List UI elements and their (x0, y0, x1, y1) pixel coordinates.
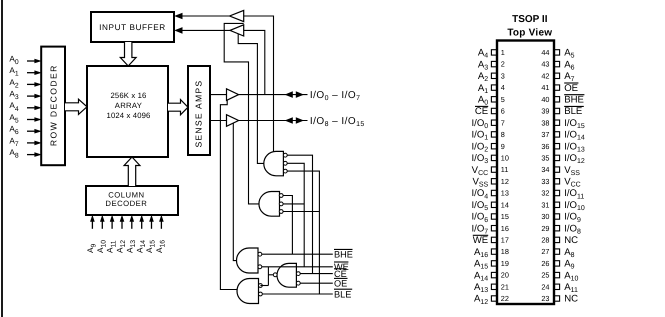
svg-text:20: 20 (501, 271, 509, 280)
svg-text:1: 1 (501, 48, 505, 57)
pin 6 CE lead, number and label (475, 106, 505, 117)
svg-text:8: 8 (501, 130, 505, 139)
pin 5 A,0 lead, number and label (478, 95, 505, 107)
svg-text:4: 4 (501, 83, 505, 92)
pin 26 A,9 lead, number and label (541, 259, 574, 271)
pin 20 A,14 lead, number and label (474, 270, 509, 282)
pin 29 IO:8 lead, number and label (541, 223, 581, 235)
svg-text:1024 x 4096: 1024 x 4096 (107, 111, 151, 120)
wire SENSE AMPS to buffer T4 (210, 120, 227, 122)
wire SENSE AMPS to buffer T3 (210, 94, 227, 96)
open arrow ARRAY to SENSE AMPS (168, 100, 188, 115)
svg-text:DECODER: DECODER (105, 199, 147, 208)
TSOP II package body (497, 41, 554, 305)
svg-text:44: 44 (541, 48, 549, 57)
svg-text:32: 32 (541, 189, 549, 198)
svg-text:27: 27 (541, 247, 549, 256)
svg-text:21: 21 (501, 282, 509, 291)
svg-text:43: 43 (541, 60, 549, 69)
pin 28 NC lead, number and label (541, 235, 578, 246)
svg-text:OE: OE (334, 279, 347, 289)
address input A0 wire and label (9, 54, 41, 66)
pin 33 V,CC lead, number and label (541, 177, 580, 189)
svg-text:19: 19 (501, 259, 509, 268)
pin 43 A,6 lead, number and label (541, 59, 574, 71)
buffer T1 (data in, upper) (230, 10, 244, 21)
wire T2 output to INPUT BUFFER with arrowhead (174, 27, 230, 34)
address input A15 wire and label (145, 215, 157, 253)
pin 3 A,2 lead, number and label (478, 71, 505, 83)
svg-text:36: 36 (541, 142, 549, 151)
buffer T2 (data in, lower) (230, 25, 244, 36)
control signal WE line and label (262, 262, 349, 272)
buffer T3 (data out, upper) (227, 89, 239, 101)
svg-text:12: 12 (501, 177, 509, 186)
svg-text:23: 23 (541, 294, 549, 303)
address input A1 wire and label (9, 66, 41, 78)
wire T3 enable from gate G5 output (220, 100, 237, 289)
pin 14 IO:5 lead, number and label (471, 200, 508, 212)
svg-text:34: 34 (541, 165, 549, 174)
svg-text:41: 41 (541, 83, 549, 92)
svg-text:NC: NC (564, 294, 578, 305)
pin 41 OE lead, number and label (541, 83, 578, 94)
svg-text:35: 35 (541, 154, 549, 163)
svg-text:CE: CE (334, 269, 347, 279)
pin 17 WE lead, number and label (473, 235, 509, 246)
svg-text:ARRAY: ARRAY (115, 101, 142, 110)
svg-text:NC: NC (564, 235, 578, 246)
control signal BHE line and label (262, 249, 353, 259)
block ROW DECODER (41, 47, 65, 166)
wire T1 input from vertical bus (244, 16, 274, 152)
address input A13 wire and label (125, 215, 137, 253)
svg-text:38: 38 (541, 118, 549, 127)
pin 40 BHE lead, number and label (541, 95, 584, 106)
address input A9 wire and label (86, 215, 98, 253)
wire G4 output to G3 and G5 inputs (260, 267, 273, 286)
pin 37 IO:14 lead, number and label (541, 130, 585, 142)
svg-text:24: 24 (541, 282, 549, 291)
pin 23 NC lead, number and label (541, 294, 578, 305)
control signal BLE line and label (262, 289, 352, 299)
address input A11 wire and label (106, 215, 118, 253)
wire G2 input 2 junction to WE vertical (283, 203, 304, 205)
svg-text:TSOP II: TSOP II (512, 14, 548, 25)
svg-text:BLE: BLE (334, 289, 351, 299)
block 256K x 16 ARRAY (87, 66, 168, 157)
wire T2 enable from gate G1 output (238, 34, 264, 164)
svg-text:SENSE AMPS: SENSE AMPS (194, 80, 204, 148)
gate G4 (2-input NAND, inputs inverted, faces left, output bubble) (273, 263, 300, 287)
pin 15 IO:6 lead, number and label (471, 212, 508, 224)
control signal CE line and label (300, 269, 347, 279)
svg-text:16: 16 (501, 224, 509, 233)
svg-text:14: 14 (501, 200, 509, 209)
svg-text:18: 18 (501, 247, 509, 256)
svg-text:30: 30 (541, 212, 549, 221)
address input A5 wire and label (9, 113, 41, 125)
svg-text:2: 2 (501, 60, 505, 69)
pin 18 A,16 lead, number and label (474, 247, 509, 259)
wire T4 enable from gate G3 output (233, 123, 237, 260)
svg-text:3: 3 (501, 71, 505, 80)
svg-text:BHE: BHE (334, 250, 353, 260)
control signal OE line and label (300, 278, 347, 288)
address input A10 wire and label (96, 215, 108, 253)
wire G2 input 3 junction to BLE vertical (283, 211, 319, 213)
svg-text:22: 22 (501, 294, 509, 303)
wire T1 output to INPUT BUFFER with arrowhead (174, 13, 229, 20)
svg-text:37: 37 (541, 130, 549, 139)
svg-text:OE: OE (564, 83, 578, 94)
gate G3 (2-input AND, inputs inverted, faces left) (237, 248, 262, 273)
svg-text:31: 31 (541, 200, 549, 209)
address input A16 wire and label (155, 215, 167, 253)
pin 22 A,12 lead, number and label (474, 294, 509, 306)
open arrow ROW DECODER to ARRAY (65, 99, 87, 114)
block SENSE AMPS (188, 66, 210, 155)
pin 16 IO:7 lead, number and label (471, 223, 508, 235)
pin 42 A,7 lead, number and label (541, 71, 574, 83)
svg-text:5: 5 (501, 95, 505, 104)
pin 32 IO:11 lead, number and label (541, 188, 584, 200)
address input A12 wire and label (116, 215, 128, 253)
svg-text:28: 28 (541, 236, 549, 245)
gate G5 (2-input AND, inputs inverted, faces left) (237, 279, 262, 304)
wire G1 input 1 to CE line (287, 155, 312, 273)
buffer T4 (data out, lower) (227, 115, 239, 127)
address input A6 wire and label (9, 125, 41, 137)
svg-text:256K x 16: 256K x 16 (111, 91, 147, 100)
address input A2 wire and label (9, 78, 41, 90)
svg-text:I/O0 – I/O7: I/O0 – I/O7 (310, 90, 361, 102)
pin 13 IO:4 lead, number and label (471, 188, 508, 200)
svg-text:10: 10 (501, 154, 509, 163)
svg-text:BHE: BHE (564, 95, 584, 106)
svg-text:WE: WE (473, 235, 488, 246)
pin 11 V,CC lead, number and label (472, 165, 509, 177)
pin 25 A,10 lead, number and label (541, 270, 578, 282)
svg-text:BLE: BLE (564, 106, 582, 117)
pin 12 V,SS lead, number and label (472, 177, 508, 189)
pin 8 IO:1 lead, number and label (471, 130, 504, 142)
open arrow COLUMN DECODER to ARRAY (124, 157, 140, 186)
pin 2 A,3 lead, number and label (478, 59, 505, 71)
svg-text:29: 29 (541, 224, 549, 233)
address input A14 wire and label (135, 215, 147, 253)
pin 35 IO:12 lead, number and label (541, 153, 585, 165)
address input A4 wire and label (9, 101, 41, 113)
pin 44 A,5 lead, number and label (541, 48, 574, 60)
svg-text:INPUT BUFFER: INPUT BUFFER (99, 23, 166, 32)
wire T3 to I/O0-I/O7 with bidirectional arrowheads (239, 91, 308, 98)
svg-text:6: 6 (501, 107, 505, 116)
pin 21 A,13 lead, number and label (474, 282, 509, 294)
wire G1 input 2 to WE line (287, 163, 304, 266)
open arrow INPUT BUFFER to ARRAY (120, 42, 136, 66)
pin 36 IO:13 lead, number and label (541, 141, 585, 153)
pin 4 A,1 lead, number and label (478, 83, 505, 95)
pin 7 IO:0 lead, number and label (471, 118, 504, 130)
pin 9 IO:2 lead, number and label (471, 141, 504, 153)
wire G1 input 3 to BLE line (287, 171, 319, 294)
svg-text:9: 9 (501, 142, 505, 151)
svg-text:13: 13 (501, 189, 509, 198)
svg-text:42: 42 (541, 71, 549, 80)
pin 24 A,11 lead, number and label (541, 282, 578, 294)
svg-text:26: 26 (541, 259, 549, 268)
svg-text:39: 39 (541, 107, 549, 116)
block COLUMN DECODER (86, 186, 178, 215)
pin 10 IO:3 lead, number and label (471, 153, 508, 165)
pin 19 A,15 lead, number and label (474, 259, 509, 271)
svg-text:33: 33 (541, 177, 549, 186)
gate G1 (3-input AND, inputs inverted, faces left) (264, 151, 287, 175)
block INPUT BUFFER U1 (91, 12, 174, 42)
svg-text:17: 17 (501, 236, 509, 245)
pin 30 IO:9 lead, number and label (541, 212, 581, 224)
wire G2 input 1 to BHE line (283, 196, 292, 255)
wire T1 enable from gate G2 output (224, 23, 259, 204)
pin 39 BLE lead, number and label (541, 106, 583, 117)
svg-text:ROW DECODER: ROW DECODER (49, 64, 59, 146)
pin 27 A,8 lead, number and label (541, 247, 574, 259)
svg-text:Top View: Top View (507, 27, 552, 38)
pin 34 V,SS lead, number and label (541, 165, 580, 177)
pin 38 IO:15 lead, number and label (541, 118, 585, 130)
svg-text:25: 25 (541, 271, 549, 280)
pin 31 IO:10 lead, number and label (541, 200, 585, 212)
svg-text:CE: CE (475, 106, 488, 117)
svg-text:15: 15 (501, 212, 509, 221)
address input A7 wire and label (9, 136, 41, 148)
wire T2 input from I/O0-I/O7 line (244, 30, 265, 94)
address input A3 wire and label (9, 90, 41, 102)
svg-text:7: 7 (501, 118, 505, 127)
pin 1 A,4 lead, number and label (478, 48, 505, 60)
address input A8 wire and label (9, 148, 41, 160)
wire T4 to I/O8-I/O15 with bidirectional arrowheads (239, 117, 308, 124)
svg-text:40: 40 (541, 95, 549, 104)
gate G2 (3-input AND, inputs inverted, faces left) (259, 192, 283, 217)
svg-text:11: 11 (501, 165, 509, 174)
